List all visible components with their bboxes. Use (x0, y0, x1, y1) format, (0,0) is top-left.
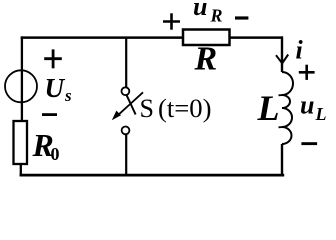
svg-text:S: S (140, 94, 154, 123)
wire left vertical lower (20, 164, 22, 176)
plus sign of u_R (163, 13, 180, 29)
wire middle vertical lower (125, 134, 127, 176)
inductor cusp tick lower (279, 126, 284, 128)
svg-text:L: L (315, 104, 327, 124)
svg-text:(t=0): (t=0) (158, 94, 212, 123)
switch motion arrow (116, 92, 143, 116)
voltage source U_S circle (5, 70, 37, 102)
minus sign of u_R (235, 16, 248, 19)
wire right vertical lower (281, 144, 283, 176)
wire middle vertical upper (125, 38, 127, 88)
switch arrowhead (112, 111, 121, 121)
svg-text:i: i (296, 36, 304, 65)
minus sign of u_L (301, 142, 317, 145)
wire right vertical upper (281, 36, 283, 72)
svg-text:R: R (194, 41, 218, 78)
resistor R box (183, 30, 230, 46)
current arrowhead i (276, 55, 288, 64)
switch blade (127, 95, 136, 114)
svg-text:U: U (45, 73, 66, 103)
svg-text:s: s (64, 86, 72, 105)
switch S top contact (122, 87, 130, 95)
switch S bottom contact (122, 126, 130, 134)
wire bottom horizontal (20, 174, 285, 177)
wire top horizontal (21, 36, 283, 39)
svg-text:R: R (210, 6, 223, 26)
minus sign of U_S (42, 113, 57, 116)
svg-text:0: 0 (51, 144, 60, 164)
wire through source (21, 71, 23, 122)
resistor R0 (14, 121, 28, 164)
svg-text:u: u (193, 0, 207, 21)
inductor cusp tick upper (279, 94, 284, 96)
plus sign of U_S (44, 49, 62, 68)
svg-text:L: L (257, 88, 280, 128)
plus sign of u_L (299, 65, 315, 80)
inductor L coil (282, 72, 293, 144)
svg-text:u: u (300, 90, 314, 119)
wire left vertical upper (21, 36, 23, 70)
